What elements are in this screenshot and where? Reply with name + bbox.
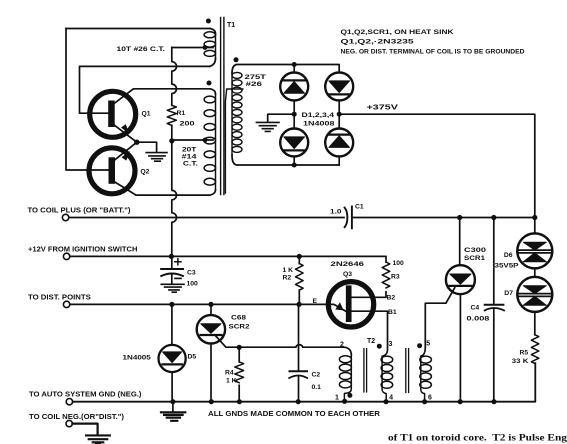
- node: T1 primary-2 center-tap dot: [203, 138, 208, 143]
- wire: D7 to R5: [534, 312, 536, 335]
- T1 secondary tap stub crossing core: [225, 89, 242, 193]
- resistor R1 200: [167, 105, 176, 125]
- svg-text:D1,2,3,4: D1,2,3,4: [302, 112, 335, 119]
- wire: left vertical rail down to Q2 base: [66, 29, 109, 171]
- node: T1 secondary phase dot: [234, 57, 239, 62]
- svg-text:5: 5: [426, 341, 430, 348]
- wire: R1 bottom to 20T center-tap junction: [171, 125, 173, 140]
- svg-text:100: 100: [393, 260, 405, 267]
- SCR2 C68: [197, 315, 225, 343]
- wire: Q1 collector to T1 primary-2 top: [114, 89, 216, 104]
- transistor Q2 2N3235: [89, 148, 135, 194]
- T2 middle winding loops (pins 3-4): [381, 356, 393, 388]
- junction: C1 line at C4: [491, 215, 496, 220]
- svg-text:C3: C3: [187, 270, 196, 277]
- T1 winding 10T #26 C.T. (primary-1): [204, 32, 215, 59]
- node: T1 primary-2 phase dot: [207, 81, 212, 86]
- capacitor C1 1.0: [345, 207, 352, 229]
- wire: TO COIL PLUS line to C1: [69, 217, 344, 219]
- wire: dist line down to D5 anode: [171, 304, 173, 344]
- wire: R4 bottom to ground rail: [238, 385, 240, 401]
- svg-text:C2: C2: [312, 372, 321, 379]
- Q3 emitter arrowhead: [335, 302, 343, 310]
- svg-text:E: E: [313, 298, 318, 305]
- wire: C4 vertical from C1 line: [493, 218, 495, 304]
- svg-text:1N4008: 1N4008: [303, 120, 335, 127]
- Q3 emitter lead with arrow: [330, 304, 346, 311]
- svg-text:Q1,Q2,·2N3235: Q1,Q2,·2N3235: [341, 39, 415, 46]
- svg-text:10T #26 C.T.: 10T #26 C.T.: [117, 46, 166, 53]
- svg-text:Q1: Q1: [142, 110, 151, 117]
- junction: +12V line at C3: [169, 254, 174, 259]
- svg-text:ALL GNDS MADE COMMON TO EACH O: ALL GNDS MADE COMMON TO EACH OTHER: [208, 411, 380, 418]
- wire: +12V line from terminal to R3 top: [70, 256, 386, 262]
- node: T1 primary-1 center-tap dot: [203, 45, 208, 50]
- svg-text:B2: B2: [387, 294, 396, 301]
- svg-text:NEG. OR DIST. TERMINAL OF COIL: NEG. OR DIST. TERMINAL OF COIL IS TO BE …: [341, 49, 525, 56]
- zener D6 35V5P: [517, 233, 552, 268]
- svg-text:C300: C300: [464, 247, 486, 254]
- svg-text:D5: D5: [188, 353, 197, 360]
- node: T2 pin 1 phase dot: [347, 393, 352, 398]
- wire: bridge bottom leads: [294, 157, 339, 165]
- wire: TO COIL NEG lead to ground G5: [72, 424, 97, 434]
- svg-text:1: 1: [335, 395, 339, 402]
- T1 winding 20T #14 C.T. (primary-2): [204, 94, 215, 190]
- Q2 base bar: [109, 157, 116, 184]
- ground G5 (coil neg): [86, 435, 110, 444]
- svg-text:C1: C1: [355, 204, 364, 211]
- svg-text:D7: D7: [504, 290, 513, 297]
- capacitor C3 100 electrolytic: [161, 256, 183, 283]
- Q1 base bar: [108, 101, 115, 128]
- wire: Q1 emitter diagonal to common point: [114, 125, 137, 143]
- junction: bridge mid-right (+375V output): [337, 112, 342, 117]
- junction: ground rail at D5/G4: [170, 399, 175, 404]
- wire: C2 vertical from E line: [298, 304, 300, 370]
- svg-text:TO AUTO SYSTEM GND (NEG.): TO AUTO SYSTEM GND (NEG.): [29, 390, 142, 399]
- diode D2 (bridge bottom-left): [280, 129, 308, 157]
- junction: SCR2 gate at R4: [237, 345, 242, 350]
- svg-text:Q3: Q3: [343, 271, 352, 278]
- svg-text:6: 6: [428, 394, 432, 401]
- wire: D6 top lead from C1 line: [534, 218, 536, 234]
- T1 winding 275T #26 (secondary): [232, 72, 242, 155]
- junction: +12V line at R2: [297, 254, 302, 259]
- SCR1 C300: [446, 265, 475, 294]
- junction: C1 line at SCR1 anode: [457, 215, 462, 220]
- T1 secondary 275T top lead to bridge top wire: [232, 65, 339, 74]
- junction: C1 line at right rail / D6: [532, 215, 537, 220]
- svg-text:200: 200: [180, 121, 195, 128]
- svg-text:#26: #26: [246, 81, 263, 88]
- junction: bridge bottom at left column: [292, 163, 297, 168]
- svg-text:Q1,Q2,SCR1, ON HEAT SINK: Q1,Q2,SCR1, ON HEAT SINK: [341, 29, 454, 36]
- wire: SCR2 cathode to ground rail: [210, 344, 212, 402]
- Q1 emitter arrowhead: [121, 124, 129, 134]
- ground G1 (Q1/Q2 emitters): [146, 153, 167, 162]
- capacitor C2 0.1: [289, 371, 307, 378]
- wire: C1 to right rail: [352, 217, 535, 219]
- wire: bridge right column middle leads: [338, 101, 340, 127]
- T2 core 2: [406, 349, 409, 393]
- svg-text:TO DIST. POINTS: TO DIST. POINTS: [28, 292, 91, 301]
- svg-text:C.T.: C.T.: [183, 160, 198, 167]
- junction: ground rail at C2: [296, 399, 301, 404]
- resistor R5 33K: [531, 335, 538, 364]
- junction: dist line at SCR2: [208, 302, 213, 307]
- diode D1 (bridge top-left): [280, 73, 308, 101]
- svg-text:4: 4: [389, 394, 393, 401]
- svg-text:35V5P: 35V5P: [495, 262, 520, 269]
- svg-text:+375V: +375V: [367, 105, 399, 112]
- wire: T1 primary-1 center tap: [172, 47, 213, 49]
- svg-text:R3: R3: [391, 273, 400, 280]
- wire: ground rail: [73, 363, 536, 402]
- svg-text:SCR2: SCR2: [229, 324, 250, 331]
- wire: +375V line from bridge output to right rail corner: [339, 114, 535, 217]
- T2 core 1: [364, 349, 367, 392]
- svg-text:R4: R4: [225, 370, 234, 377]
- wire: T1 primary-2 center tap: [172, 139, 213, 141]
- junction: center-tap vertical at 20T CT: [169, 138, 174, 143]
- terminal: +12V FROM IGNITION SWITCH: [63, 253, 69, 259]
- svg-text:1.0: 1.0: [330, 208, 342, 215]
- svg-text:C68: C68: [231, 314, 246, 321]
- wire: R2 top lead from +12V line: [298, 256, 300, 263]
- svg-text:T1: T1: [227, 22, 235, 29]
- wire: SCR1 gate to T2 pin 5: [421, 288, 455, 357]
- terminal: TO AUTO SYSTEM GND: [66, 399, 72, 405]
- T2 right winding loops (pins 5-6): [420, 356, 432, 388]
- svg-text:C4: C4: [471, 304, 480, 311]
- node: T1 primary-1 phase dot: [206, 19, 211, 24]
- svg-text:TO COIL NEG.(OR"DIST."): TO COIL NEG.(OR"DIST."): [29, 412, 125, 421]
- svg-text:+12V FROM IGNITION SWITCH: +12V FROM IGNITION SWITCH: [28, 244, 137, 253]
- junction: bridge top at left column: [292, 62, 297, 67]
- junction: emitters common point: [134, 140, 139, 145]
- junction: dist/E line at R2-C2: [296, 302, 301, 307]
- terminal: TO COIL NEG: [66, 420, 72, 426]
- svg-text:of T1 on toroid core. T2 is P: of T1 on toroid core. T2 is Pulse Eng: [388, 433, 567, 443]
- node: T2 pin 5 phase dot: [417, 343, 422, 348]
- wire: Q3 B2 to R3 bottom: [352, 292, 386, 297]
- svg-text:100: 100: [187, 280, 199, 287]
- wire: bridge left column middle leads: [293, 101, 295, 127]
- junction: ground rail at SCR1: [458, 399, 463, 404]
- wire: R4 top lead: [238, 347, 240, 362]
- wire: junction vertical with hops over Q2 collector line and coil-plus line, down to +12V line: [172, 140, 177, 256]
- svg-text:2N2646: 2N2646: [331, 261, 365, 268]
- svg-text:2: 2: [340, 342, 344, 349]
- wire: Q3 B1 to T2 pin 3: [352, 311, 388, 356]
- svg-text:TO COIL PLUS (OR "BATT."): TO COIL PLUS (OR "BATT."): [28, 206, 132, 215]
- ground G4 (main rail ground): [172, 402, 174, 411]
- Q2 emitter arrowhead: [122, 151, 131, 161]
- ground G2 (bridge): [256, 122, 279, 131]
- wire: bridge left column top lead: [293, 65, 295, 72]
- junction: ground rail at C4: [491, 399, 496, 404]
- ground G3 (under C3): [161, 284, 184, 292]
- T1 secondary bottom lead to bridge bottom wire: [232, 155, 339, 165]
- T1 core lines: [221, 18, 224, 195]
- diode D3 (bridge top-right): [325, 73, 353, 101]
- wire: C2 bottom to ground rail: [298, 377, 300, 402]
- svg-text:B1: B1: [388, 309, 397, 316]
- junction: ground rail at T2 pin 1: [342, 399, 347, 404]
- unijunction transistor Q3 2N2646: [328, 282, 373, 327]
- T2 middle winding spine (pins 3-4): [382, 356, 386, 401]
- T2 left winding loops (pins 2-1): [339, 356, 351, 388]
- svg-text:SCR1: SCR1: [464, 255, 485, 262]
- wire: emitter common point to ground G1: [137, 142, 157, 152]
- svg-text:1N4005: 1N4005: [123, 354, 152, 361]
- capacitor C4 0.008: [485, 305, 504, 311]
- resistor R4 1K: [235, 362, 244, 383]
- svg-text:275T: 275T: [245, 74, 268, 81]
- svg-text:R1: R1: [177, 110, 186, 117]
- svg-text:D6: D6: [504, 252, 513, 259]
- resistor R3 100: [382, 262, 390, 288]
- svg-text:0.1: 0.1: [312, 384, 322, 391]
- wire: SCR2 gate to T2 pin 2, hop over C2 vertical: [215, 335, 351, 355]
- svg-text:R2: R2: [283, 274, 292, 281]
- wire: SCR1 cathode to ground rail: [459, 294, 461, 402]
- wire: R2 bottom to E line junction: [298, 290, 300, 304]
- T2 right winding spine (pins 5-6): [421, 356, 425, 401]
- wire: D6 to D7 lead: [534, 268, 536, 277]
- diode D5 1N4005: [159, 345, 186, 372]
- svg-text:1 K: 1 K: [283, 267, 294, 274]
- terminal: TO COIL PLUS: [62, 214, 68, 220]
- junction: ground rail at T2 pin 4: [383, 399, 388, 404]
- wire: Q2 emitter diagonal to common point: [114, 142, 137, 160]
- junction: dist line at D5: [169, 302, 174, 307]
- svg-text:R5: R5: [520, 350, 529, 357]
- resistor R2 1K: [295, 264, 303, 291]
- junction: bridge mid-left (to ground): [292, 112, 297, 117]
- svg-text:1 K: 1 K: [226, 377, 237, 384]
- zener D7: [517, 277, 552, 312]
- wire: C4 bottom to ground rail: [493, 309, 495, 402]
- Q3 base bar: [346, 288, 352, 319]
- diode D4 (bridge bottom-right): [325, 129, 353, 157]
- svg-text:T2: T2: [367, 338, 375, 345]
- wire: SCR2 anode from dist line: [210, 304, 212, 315]
- svg-text:0.008: 0.008: [467, 316, 490, 323]
- wire: T1 primary-1 bottom lead curve: [210, 59, 216, 67]
- T2 left winding spine (pins 2-1): [344, 355, 351, 401]
- wire: center-tap vertical with hops over primary-1 bottom line and Q1 collector line: [172, 48, 177, 106]
- wire: T1 primary-1 bottom to Q1 base: [80, 66, 210, 113]
- junction: ground rail at SCR2: [209, 399, 214, 404]
- wire: SCR1 anode from C1 line: [459, 218, 461, 266]
- svg-text:3: 3: [389, 341, 393, 348]
- wire: top line from left rail to T1 primary-1 top: [66, 29, 216, 34]
- terminal: TO DIST. POINTS: [63, 301, 69, 307]
- svg-text:33 K: 33 K: [512, 358, 529, 365]
- wire: Q2 collector to T1 primary-2 bottom: [114, 182, 216, 196]
- wire: TO DIST. POINTS line to Q3 emitter: [70, 303, 330, 305]
- junction: ground rail at R4: [237, 399, 242, 404]
- junction: ground rail at T2 pin 6: [422, 399, 427, 404]
- wire: bridge mid-left to ground G2: [268, 114, 295, 121]
- transistor Q1 2N3235: [90, 91, 136, 137]
- svg-text:Q2: Q2: [140, 169, 149, 176]
- node: T2 pin 3 phase dot: [377, 344, 382, 349]
- wire: D5 cathode to ground rail: [171, 372, 173, 402]
